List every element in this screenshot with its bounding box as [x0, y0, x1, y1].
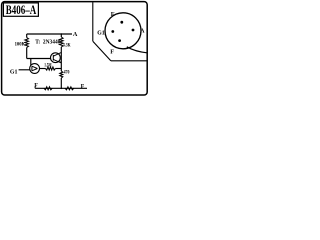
outer border frame — [2, 2, 148, 95]
wire rail to R2 — [60, 34, 62, 37]
svg-text:1.5M: 1.5M — [44, 64, 52, 69]
wire R2 to Q2 collector / emitter rail — [60, 47, 62, 71]
wire R4 to bottom rail — [60, 78, 62, 88]
tube socket V1 (base diagram circle) — [105, 13, 141, 49]
transistor Q2 — [51, 52, 62, 63]
resistor R3 1.5M (zigzag) — [46, 67, 56, 70]
resistor R2 3.3K (zigzag) — [60, 37, 64, 47]
resistor R4 470 (zigzag) — [60, 71, 63, 78]
svg-text:F: F — [110, 49, 114, 56]
svg-text:100K: 100K — [15, 42, 26, 48]
wire bottom rail — [35, 87, 87, 89]
tube compartment floor (horizontal) — [111, 60, 147, 62]
svg-text:A: A — [140, 27, 145, 34]
pin dot F top — [120, 21, 123, 24]
svg-text:B406–A: B406–A — [6, 2, 37, 17]
pin dot F bottom — [118, 39, 121, 42]
resistor R1 10K (zigzag) — [25, 38, 29, 48]
pin dot A right — [132, 29, 135, 32]
svg-text:G1: G1 — [97, 30, 104, 37]
svg-text:A: A — [73, 31, 78, 38]
wire G1 to Q1 base — [19, 69, 30, 71]
junction dot emitter rail x bottom rail — [60, 87, 62, 89]
page background — [0, 0, 150, 100]
resistor R5 (filament zigzag left) — [44, 87, 52, 90]
svg-text:F: F — [81, 84, 85, 90]
tube compartment chamfer (diagonal) — [93, 41, 111, 61]
svg-text:3.3K: 3.3K — [63, 42, 71, 48]
svg-text:G1: G1 — [10, 68, 18, 75]
svg-text:T: 2N3440: T: 2N3440 — [35, 39, 60, 45]
wire Q1 emitter to R3 — [40, 68, 46, 70]
junction dot top rail x R2 branch — [61, 33, 63, 35]
tube compartment wall (vertical) — [92, 2, 94, 41]
resistor R6 (filament zigzag right) — [65, 87, 74, 90]
wire shell leader to border — [127, 47, 147, 53]
title box — [3, 3, 38, 16]
svg-text:F: F — [111, 11, 115, 18]
svg-text:470: 470 — [64, 71, 70, 76]
wire top rail (node A rail) — [27, 33, 72, 35]
wire Q1 collector stub — [30, 58, 32, 65]
wire F tick — [34, 86, 36, 88]
wire R1 bottom to base node — [26, 48, 28, 59]
wire base node to Q2 base — [27, 58, 51, 60]
pin dot G1 left — [111, 30, 114, 33]
wire from rail to R1 — [26, 34, 28, 38]
transistor Q1 — [30, 64, 40, 74]
wire R3 to emitter rail — [55, 68, 61, 70]
